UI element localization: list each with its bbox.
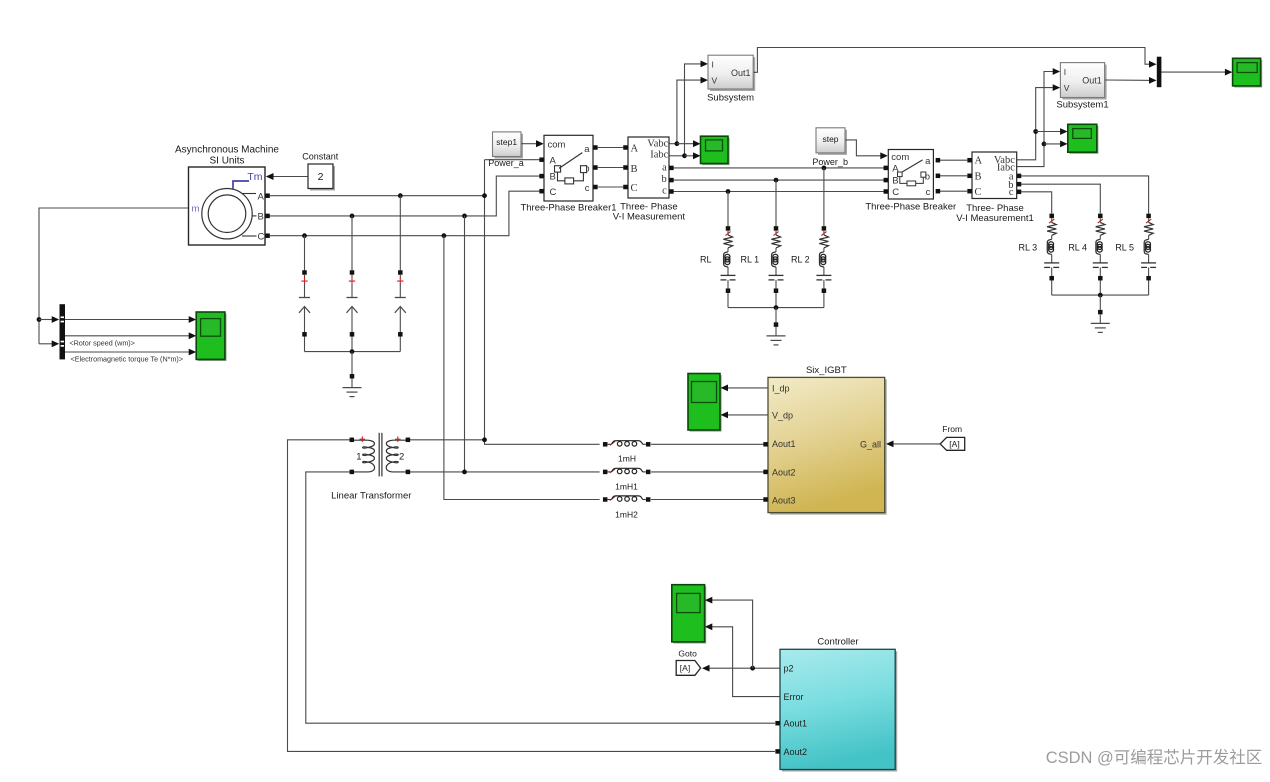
svg-text:G_all: G_all [860, 439, 881, 449]
svg-text:Goto: Goto [678, 648, 697, 658]
svg-text:c: c [585, 183, 590, 194]
svg-text:C: C [550, 187, 557, 198]
svg-text:Aout2: Aout2 [784, 747, 808, 757]
svg-text:CSDN @可编程芯片开发社区: CSDN @可编程芯片开发社区 [1046, 748, 1263, 767]
svg-text:<Rotor speed (wm)>: <Rotor speed (wm)> [69, 339, 135, 348]
svg-text:RL: RL [700, 255, 712, 265]
svg-text:V-I Measurement1: V-I Measurement1 [956, 213, 1034, 224]
svg-text:c: c [1009, 187, 1014, 198]
svg-text:Out1: Out1 [731, 68, 751, 78]
svg-text:1: 1 [356, 451, 361, 462]
svg-text:C: C [631, 183, 638, 194]
svg-text:Error: Error [784, 692, 804, 702]
svg-text:Aout1: Aout1 [784, 719, 808, 729]
svg-text:RL 5: RL 5 [1115, 242, 1134, 252]
svg-text:Constant: Constant [302, 152, 339, 162]
svg-text:Aout3: Aout3 [772, 495, 796, 505]
svg-text:SI Units: SI Units [209, 156, 244, 167]
svg-text:B: B [631, 164, 638, 175]
svg-text:Aout2: Aout2 [772, 467, 796, 477]
svg-text:m: m [192, 204, 200, 215]
svg-text:[A]: [A] [680, 663, 690, 673]
svg-text:Subsystem: Subsystem [707, 93, 754, 104]
svg-text:Tm: Tm [247, 171, 262, 183]
svg-text:C: C [892, 187, 899, 198]
svg-text:A: A [550, 156, 557, 167]
svg-text:C: C [975, 187, 982, 198]
svg-text:2: 2 [318, 171, 324, 183]
svg-text:B: B [975, 171, 982, 182]
svg-text:Iabc: Iabc [650, 150, 668, 161]
svg-text:C: C [258, 232, 265, 243]
svg-text:V: V [712, 76, 718, 86]
svg-text:RL 3: RL 3 [1019, 242, 1038, 252]
svg-text:A: A [631, 143, 639, 154]
svg-text:I: I [712, 59, 714, 69]
svg-text:Aout1: Aout1 [772, 439, 796, 449]
svg-text:1mH: 1mH [618, 454, 636, 464]
svg-text:Vabc: Vabc [647, 139, 668, 150]
svg-text:[A]: [A] [949, 439, 959, 449]
svg-text:c: c [926, 187, 931, 198]
svg-text:V-I Measurement: V-I Measurement [613, 212, 686, 223]
svg-text:I: I [1064, 67, 1066, 77]
svg-text:A: A [258, 192, 265, 203]
svg-text:RL 4: RL 4 [1068, 242, 1087, 252]
svg-text:Six_IGBT: Six_IGBT [806, 365, 847, 376]
svg-text:a: a [584, 144, 590, 155]
svg-text:Linear Transformer: Linear Transformer [331, 491, 411, 502]
svg-text:Three-Phase Breaker: Three-Phase Breaker [865, 202, 956, 213]
svg-text:b: b [662, 174, 667, 185]
svg-text:V: V [1064, 83, 1070, 93]
svg-text:From: From [942, 424, 962, 434]
svg-text:Power_b: Power_b [812, 157, 848, 167]
svg-text:RL 1: RL 1 [741, 255, 760, 265]
svg-text:a: a [925, 156, 931, 167]
svg-text:B: B [258, 212, 264, 223]
svg-text:B: B [550, 172, 556, 183]
svg-text:1mH1: 1mH1 [615, 482, 638, 492]
svg-text:B: B [892, 176, 898, 187]
svg-text:A: A [975, 156, 983, 167]
svg-text:Subsystem1: Subsystem1 [1056, 100, 1108, 111]
svg-text:Out1: Out1 [1082, 75, 1102, 85]
svg-text:com: com [548, 140, 566, 151]
svg-text:RL 2: RL 2 [791, 255, 810, 265]
svg-text:1mH2: 1mH2 [615, 510, 638, 520]
svg-text:I_dp: I_dp [772, 383, 790, 393]
svg-text:Three-Phase Breaker1: Three-Phase Breaker1 [520, 203, 616, 214]
svg-text:a: a [662, 162, 667, 173]
svg-text:Asynchronous Machine: Asynchronous Machine [175, 145, 279, 156]
svg-text:step1: step1 [496, 137, 517, 147]
svg-text:2: 2 [399, 451, 404, 462]
svg-text:com: com [891, 152, 909, 163]
svg-text:<Electromagnetic torque Te (N*: <Electromagnetic torque Te (N*m)> [71, 355, 184, 364]
svg-text:V_dp: V_dp [772, 410, 793, 420]
svg-text:Controller: Controller [817, 637, 858, 648]
svg-text:Power_a: Power_a [488, 158, 524, 168]
svg-text:p2: p2 [784, 664, 794, 674]
svg-text:c: c [662, 186, 667, 197]
svg-text:step: step [822, 134, 838, 144]
